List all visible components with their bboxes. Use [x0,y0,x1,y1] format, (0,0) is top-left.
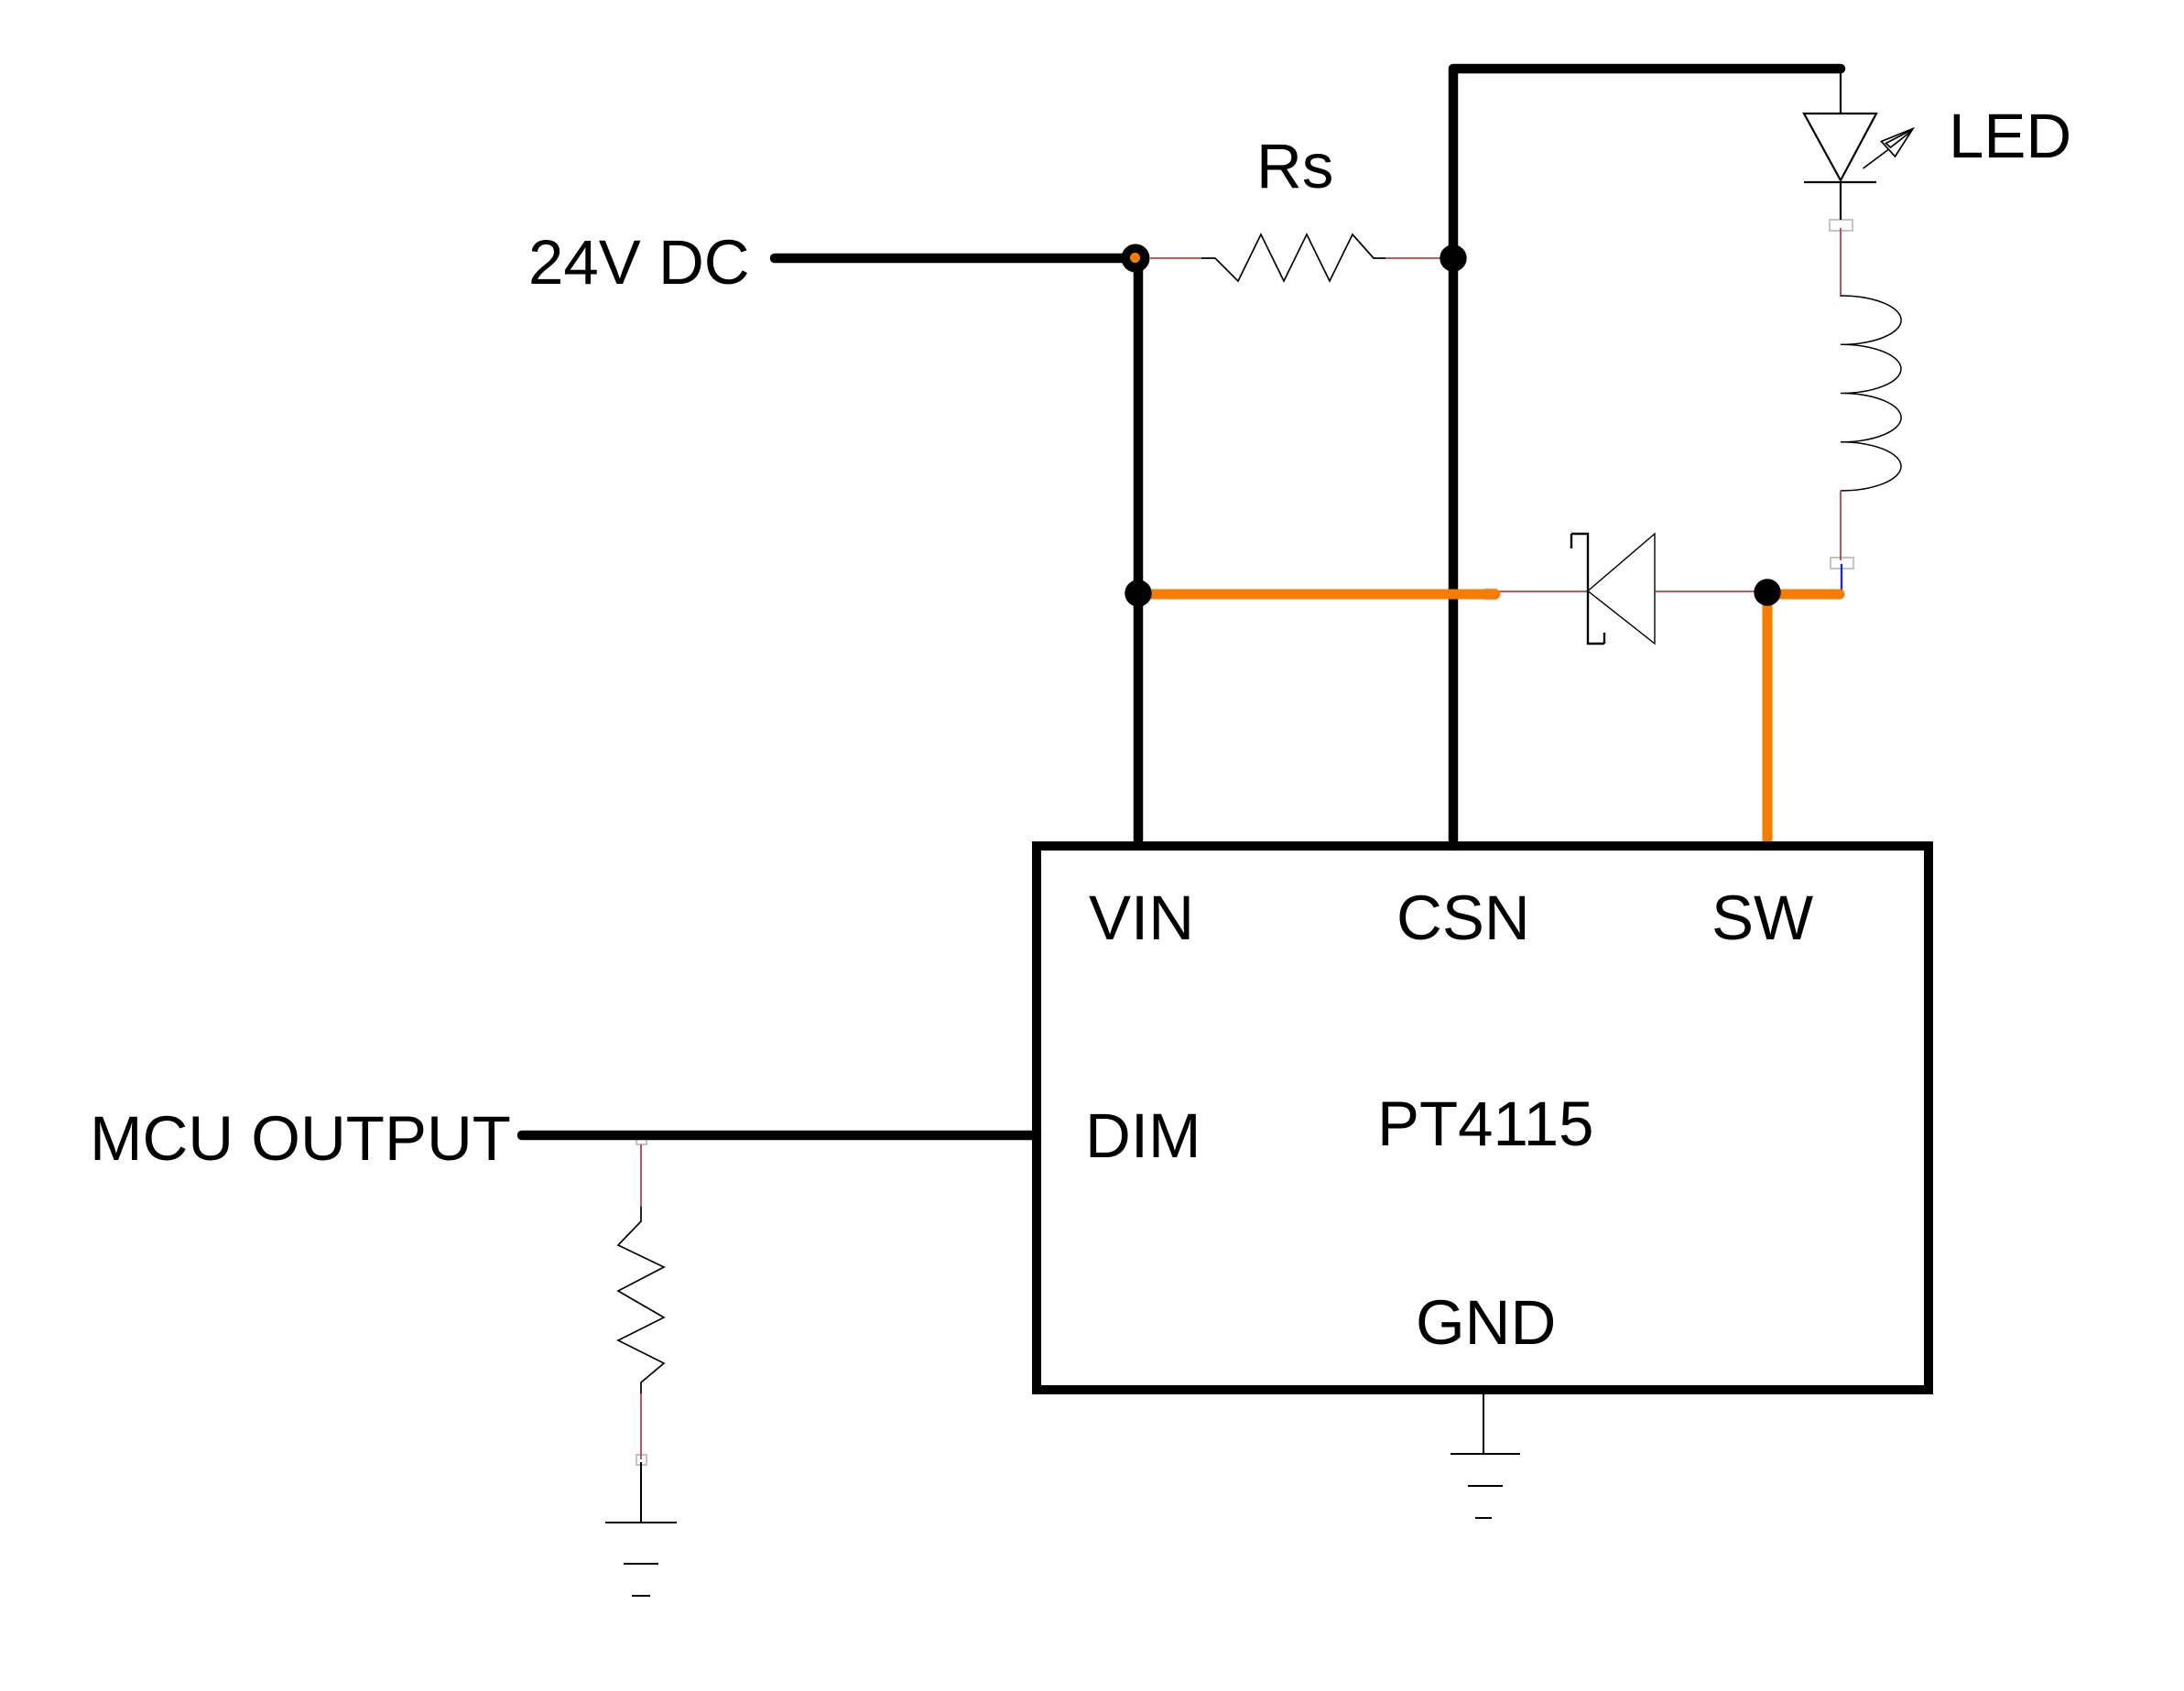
junction node 24V-VIN [1122,244,1150,273]
wire orange VIN to diode [1138,590,1495,600]
wire top rail and CSN vertical [1453,69,1841,846]
ground symbol IC [1451,1454,1520,1518]
svg-text:Rs: Rs [1256,131,1333,201]
pin terminal box inductor L1 bottom [1831,558,1853,569]
LED emission arrow [1863,129,1914,169]
svg-text:LED: LED [1949,101,2071,171]
svg-text:24V DC: 24V DC [528,227,750,298]
wire red diode anode net [1495,591,1587,592]
wire red Rs right lead net [1385,257,1444,259]
pin terminal box resistor R1 top [636,1134,647,1144]
wire GND stub [1483,1394,1484,1454]
wire orange SW vertical [1763,594,1773,846]
junction node VIN-freewheel [1125,580,1151,606]
wire red LED to inductor [1840,228,1842,297]
junction node orange center [1130,253,1140,263]
svg-text:VIN: VIN [1089,883,1194,953]
junction node Rs-CSN [1440,244,1466,271]
wire red DIM pin to resistor [640,1144,642,1207]
wire 24V DC feed [775,254,1138,264]
LED cathode bar [1804,181,1876,183]
wire red resistor to ground pin [640,1393,642,1459]
LED cathode lead [1840,182,1842,220]
pin terminal box resistor R1 bottom [636,1455,647,1465]
svg-text:PT4115: PT4115 [1377,1089,1594,1159]
diode D1 triangle [1588,534,1655,644]
wire orange SW node to inductor [1767,590,1840,600]
diode D1 schottky cathode bar [1571,534,1604,644]
ground symbol R1 [605,1523,677,1596]
wire VIN vertical [1134,258,1144,846]
pin terminal box diode D1 anode [1485,590,1496,600]
resistor R1 [618,1207,664,1393]
wire red diode cathode to SW node [1656,591,1767,592]
svg-text:DIM: DIM [1085,1100,1201,1171]
wire MCU output to DIM [522,1131,1037,1141]
LED anode wire [1840,72,1842,114]
svg-text:CSN: CSN [1396,883,1530,953]
junction node SW [1754,579,1780,605]
wire blue inductor pin to SW net [1841,564,1842,593]
svg-text:SW: SW [1711,883,1813,953]
IC U1 PT4115 box [1037,846,1929,1390]
wire red inductor to pin [1840,491,1842,560]
pin terminal box LED cathode [1830,220,1853,231]
svg-text:GND: GND [1416,1287,1556,1358]
resistor Rs [1201,234,1385,281]
wire red Rs left lead net [1150,257,1201,259]
svg-text:MCU OUTPUT: MCU OUTPUT [90,1103,511,1174]
inductor L1 [1841,296,1901,491]
LED triangle [1804,114,1876,180]
wire resistor ground lead [640,1462,642,1523]
